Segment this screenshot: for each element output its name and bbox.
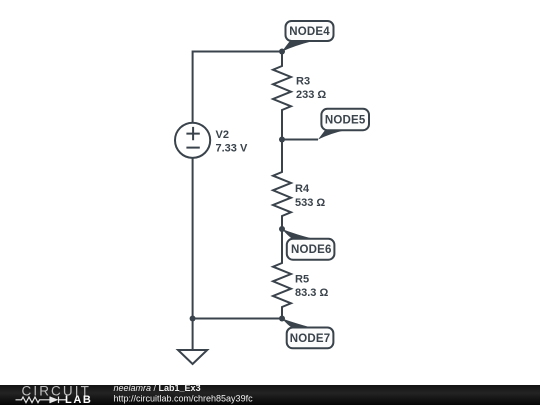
ground	[178, 350, 207, 364]
node NODE5 flag	[318, 109, 369, 140]
junction dot left bottom	[190, 316, 196, 322]
svg-text:LAB: LAB	[65, 394, 92, 405]
voltage source V2	[175, 123, 210, 158]
svg-text:NODE4: NODE4	[289, 26, 330, 38]
svg-text:V2: V2	[216, 129, 229, 141]
CircuitLab logo zigzag + diode	[16, 397, 67, 404]
junction dot NODE6	[279, 226, 285, 232]
node NODE6 flag	[282, 229, 334, 260]
svg-text:R3: R3	[296, 76, 310, 88]
svg-text:83.3 Ω: 83.3 Ω	[295, 287, 328, 299]
resistor R3 label	[296, 76, 326, 102]
junction dot NODE4	[279, 49, 285, 55]
wire: top rail from V2 top to NODE4 junction	[193, 51, 282, 53]
node NODE4 flag	[282, 21, 334, 52]
junction dot NODE7	[279, 316, 285, 322]
junction dot NODE5	[279, 137, 285, 143]
wire: left rail lower (V2 bottom to ground junction)	[192, 158, 194, 319]
svg-text:7.33 V: 7.33 V	[216, 143, 248, 155]
svg-text:neelamra / Lab1_Ex3: neelamra / Lab1_Ex3	[114, 383, 201, 393]
node NODE7 flag	[282, 319, 333, 349]
svg-text:NODE5: NODE5	[325, 115, 366, 127]
svg-text:233 Ω: 233 Ω	[296, 89, 326, 101]
resistor R5 label	[295, 274, 328, 300]
wire: left rail upper (V2 top lead)	[192, 51, 194, 124]
svg-text:R5: R5	[295, 274, 309, 286]
resistor R4 label	[295, 183, 325, 209]
wire: right rail with resistors	[273, 52, 291, 319]
svg-text:NODE6: NODE6	[291, 244, 332, 256]
svg-text:http://circuitlab.com/chreh85a: http://circuitlab.com/chreh85ay39fc	[114, 393, 254, 403]
svg-text:533 Ω: 533 Ω	[295, 197, 325, 209]
svg-text:NODE7: NODE7	[290, 333, 331, 345]
wire: bottom rail from ground junction to NODE7	[193, 318, 282, 320]
wire: NODE5 stub	[282, 139, 318, 141]
label V2 value 7.33 V	[216, 129, 248, 155]
wire: ground lead	[192, 319, 194, 351]
svg-text:R4: R4	[295, 183, 310, 195]
